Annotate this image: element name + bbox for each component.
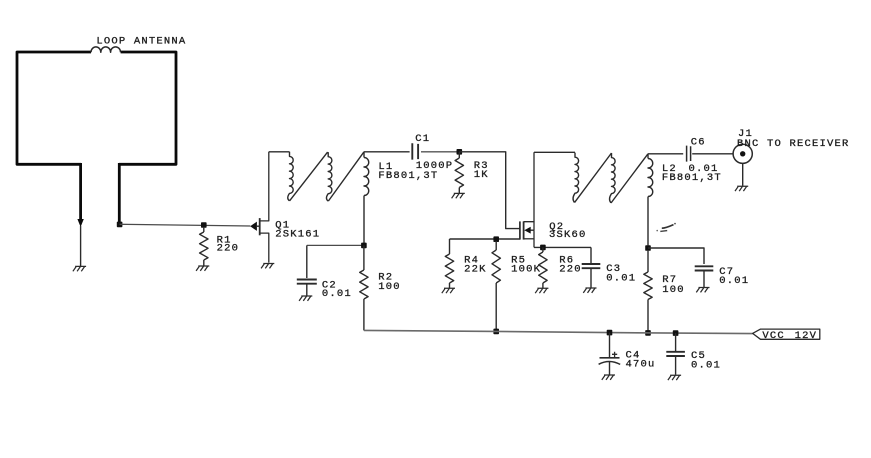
power flag VCC 12V [753,329,820,342]
resistor R3 [455,152,489,193]
node C1/R3 [457,149,463,155]
transformer L2 [573,153,722,246]
svg-text:VCC: VCC [762,330,785,342]
svg-text:220: 220 [559,264,582,276]
node C5/bus [673,330,679,336]
wire [120,224,251,226]
wire [692,153,733,155]
ground [452,193,465,198]
ground [196,266,209,271]
resistor R4 [445,239,486,288]
wire [307,244,362,246]
node Q2 source [540,245,546,251]
ground [602,375,615,380]
svg-text:3SK60: 3SK60 [549,229,587,241]
ground [442,288,455,293]
node R7/bus [645,330,651,336]
ground [735,186,748,191]
svg-text:22K: 22K [464,264,487,276]
ground [261,264,274,269]
wire [450,238,520,240]
wire [421,151,459,153]
transistor Q2 [520,152,587,247]
ground [668,375,681,380]
svg-text:0.01: 0.01 [691,359,721,371]
svg-text:470u: 470u [626,359,656,371]
svg-text:0.01: 0.01 [689,163,719,175]
capacitor C1 [412,133,453,172]
transformer L1 [288,152,439,243]
capacitor C6 [687,136,719,175]
node C4/bus [607,330,613,336]
capacitor C7 [695,266,750,287]
node antenna feed [117,222,123,228]
capacitor C5 [666,333,721,375]
ground [696,288,709,293]
wire [269,151,290,153]
ground [299,296,312,301]
svg-text:1000P: 1000P [416,160,454,172]
resistor R2 [360,245,401,330]
transistor Q1 [250,152,320,263]
svg-text:2SK161: 2SK161 [275,229,320,241]
svg-text:LOOP ANTENNA: LOOP ANTENNA [96,35,186,47]
svg-text:100: 100 [662,284,685,296]
node R4/R5/gate1 [493,236,499,242]
loop antenna [17,47,176,227]
label LOOP ANTENNA [96,35,186,47]
svg-text:0.01: 0.01 [322,288,352,300]
wire [364,151,410,153]
wire [648,248,704,264]
svg-text:C1: C1 [415,133,430,145]
wire [534,246,591,248]
node L1/R2/C2 [361,243,367,249]
resistor R1 [200,222,240,266]
node L2/R7/C7 [645,245,651,251]
resistor R7 [644,250,685,333]
resistor R5 [492,241,541,331]
svg-text:0.01: 0.01 [606,272,636,284]
wire [648,153,683,155]
svg-text:BNC TO RECEIVER: BNC TO RECEIVER [737,138,850,150]
wire [534,151,575,153]
capacitor C4 [599,333,656,375]
svg-text:12V: 12V [795,330,818,342]
capacitor C3 [582,247,637,287]
svg-text:C6: C6 [691,136,706,148]
ground [583,288,596,293]
svg-text:0.01: 0.01 [719,275,749,287]
svg-text:100: 100 [378,281,401,293]
wire VCC bus [364,330,753,333]
capacitor C2 [297,245,352,300]
connector J1 [733,128,849,186]
ground [535,288,548,293]
resistor R6 [539,247,582,288]
wire [459,152,520,229]
svg-text:220: 220 [217,243,240,255]
svg-text:100K: 100K [511,264,541,276]
svg-text:1K: 1K [474,169,489,181]
node R5/bus [493,329,499,335]
ground [73,226,86,271]
